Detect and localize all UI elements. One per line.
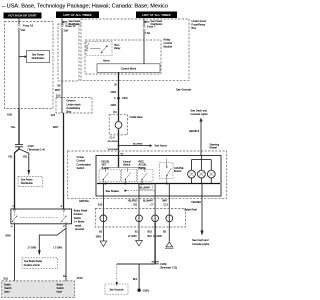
label under-hood fuse/relay box (192, 19, 207, 30)
terminal labels row (98, 203, 169, 206)
svg-text:10A: 10A (21, 28, 26, 32)
svg-text:7.5A: 7.5A (145, 31, 151, 35)
svg-text:input: input (4, 290, 10, 293)
svg-text:C301: C301 (122, 97, 129, 100)
svg-text:YEL: YEL (11, 125, 16, 129)
node see power distribution (dashed ref box) (18, 177, 43, 187)
driver's under-dash fuse/relay box part B (dashed) (58, 24, 79, 81)
svg-text:GRN: GRN (5, 234, 11, 237)
connector box D15 (dashed, driver's under-dash fuse/relay box label) (56, 98, 92, 114)
power label HOT IN ON OR START (4, 13, 42, 19)
decel/set switch (99, 160, 121, 183)
wire through D15 box (61, 98, 63, 114)
svg-text:GRN: GRN (110, 91, 116, 94)
brake pedal position switch (11, 205, 72, 229)
svg-text:Module: Module (164, 44, 173, 48)
svg-text:Combination: Combination (77, 162, 92, 166)
svg-text:Driver's: Driver's (67, 99, 77, 103)
ground (w1) (100, 241, 107, 247)
see dash and console lights (top ref) (191, 108, 209, 121)
svg-text:WHT: WHT (53, 125, 59, 129)
svg-text:BLK/GRN: BLK/GRN (108, 141, 118, 143)
svg-text:See Horns: See Horns (155, 144, 168, 148)
wire illumination feed (RED/BLK) (189, 121, 201, 156)
arrow down to power distribution ref (27, 170, 30, 176)
svg-text:pedal: pedal (75, 224, 82, 227)
ground (w2) (136, 240, 143, 246)
svg-text:YEL: YEL (8, 155, 13, 159)
svg-text:Position Circuit: Position Circuit (24, 264, 40, 267)
branch see horns (118, 143, 168, 147)
fuse F18 (18, 19, 34, 32)
wire control block to cable reel (GRN) (118, 73, 120, 122)
svg-text:E10: E10 (98, 203, 103, 206)
see brakes ref (106, 185, 155, 193)
power label HOT AT ALL TIMES (right) (136, 12, 177, 19)
label brake pedal position switch (74, 210, 88, 232)
connector C415 (15, 144, 45, 152)
wire w3 (154, 184, 156, 223)
svg-text:Control: Control (77, 159, 86, 163)
svg-text:BLK: BLK (147, 235, 152, 238)
svg-text:(Terminals 7-12): (Terminals 7-12) (160, 266, 177, 269)
driver's under-dash fuse/relay box part A (dashed) (5, 22, 54, 109)
svg-text:Cable Reel: Cable Reel (130, 115, 143, 119)
svg-text:WHT: WHT (162, 200, 168, 202)
svg-text:Under-hood: Under-hood (192, 19, 207, 23)
svg-text:Switch: Switch (77, 166, 85, 170)
wire w1 below reel (GRN) (96, 230, 103, 238)
svg-text:A29: A29 (7, 113, 12, 117)
svg-text:E11: E11 (133, 203, 138, 206)
PCM box (2, 275, 83, 297)
svg-text:BLU/WHT: BLU/WHT (143, 200, 154, 202)
cancel switch (122, 160, 137, 183)
svg-text:WHT: WHT (55, 89, 61, 92)
fuse F7 (143, 25, 156, 35)
svg-text:YEL/RED: YEL/RED (191, 202, 201, 204)
wire WHT (55, 81, 62, 98)
wire w1 (switch to cable reel) (102, 184, 104, 241)
svg-text:Distribution: Distribution (21, 182, 34, 185)
svg-text:Box: Box (67, 110, 72, 114)
svg-text:Fuse/Relay: Fuse/Relay (192, 22, 206, 26)
svg-text:BLU/WHT: BLU/WHT (140, 186, 151, 189)
wire w4 below reel (LT GRN) (153, 230, 167, 238)
svg-text:Brake Pedal: Brake Pedal (74, 210, 88, 213)
svg-text:1 = Brake: 1 = Brake (74, 221, 85, 224)
wire ground ref branch (dashed) (115, 264, 118, 286)
svg-text:pressed: pressed (75, 228, 85, 231)
wire w5 illumination return (201, 184, 203, 231)
svg-text:Under-dash: Under-dash (67, 102, 82, 106)
svg-text:Control Block: Control Block (121, 67, 137, 71)
wire X20 to brake switch (WHT) (53, 113, 64, 209)
svg-text:10A: 10A (64, 28, 69, 32)
wire w2 below reel (LT GRN) (128, 230, 139, 238)
wire w3 below reel (BLK) (147, 223, 155, 265)
svg-text:Cruise: Cruise (77, 155, 85, 159)
svg-text:input: input (57, 290, 63, 293)
wire fuse18 down (18, 32, 20, 109)
power label HOT AT ALL TIMES (left) (56, 12, 99, 19)
horn relay (dashed box with relay symbol) (86, 41, 121, 55)
svg-text:LT GRN: LT GRN (28, 247, 37, 250)
internal feed wire (106, 168, 145, 173)
svg-text:Position: Position (74, 213, 84, 216)
svg-text:RED/BLK: RED/BLK (189, 130, 200, 133)
node see brake pedal position circuit (box) (22, 258, 58, 269)
svg-text:G501: G501 (143, 289, 150, 293)
svg-text:C415: C415 (28, 144, 35, 148)
steering wheel (dashed) (68, 151, 227, 198)
svg-text:(Terminals 1-4): (Terminals 1-4) (28, 148, 45, 152)
cruise control combination switch box (96, 156, 221, 197)
wire branch to brake pedal position circuit (LT GRN) (28, 228, 66, 255)
svg-text:LT GRN: LT GRN (54, 247, 63, 250)
control block (97, 64, 160, 73)
svg-text:See Dash and: See Dash and (192, 238, 209, 242)
svg-text:HOT AT ALL TIMES: HOT AT ALL TIMES (142, 13, 170, 17)
svg-text:BLU/RED: BLU/RED (133, 143, 143, 145)
wire w2 (138, 184, 140, 241)
wire w4 (168, 184, 170, 242)
svg-text:Fuse/Relay: Fuse/Relay (67, 106, 81, 110)
cable reel (upper, dashed) (109, 115, 143, 135)
wire fork below C415 (15, 147, 20, 209)
svg-text:Fuse 18: Fuse 18 (23, 24, 34, 28)
cruise (main) button switch (160, 159, 184, 184)
node see grounds (box) (105, 284, 128, 295)
relay control module (dashed) (85, 40, 161, 74)
svg-text:Switch: Switch (123, 164, 131, 167)
arrow to power distribution (19, 55, 27, 58)
svg-text:Switch: Switch (74, 217, 82, 220)
svg-text:LT GRN: LT GRN (128, 235, 137, 238)
svg-text:See Dash and: See Dash and (191, 108, 208, 112)
wire fuse7 to control block (143, 31, 145, 64)
illumination lamps (188, 156, 216, 184)
svg-text:Wheel: Wheel (210, 146, 218, 150)
svg-text:LT GRN: LT GRN (153, 235, 162, 238)
svg-text:Fuse 12: Fuse 12 (66, 24, 77, 28)
svg-text:Box: Box (192, 26, 197, 30)
svg-text:C1 4: C1 4 (110, 137, 116, 140)
arrow w5 to dash and console lights (192, 231, 210, 246)
svg-text:PCM: PCM (77, 276, 83, 280)
wire brake sw 4 to PCM (GRN) (5, 224, 14, 281)
svg-text:C13: C13 (163, 203, 168, 206)
svg-text:B16: B16 (148, 230, 153, 233)
svg-text:See Brake Pedal: See Brake Pedal (24, 260, 42, 263)
svg-text:GRN/YEL: GRN/YEL (79, 201, 90, 203)
svg-text:E13: E13 (4, 277, 9, 280)
node see power distribution (box) (27, 51, 50, 63)
svg-text:Cable Reel: Cable Reel (184, 208, 197, 212)
svg-text:C329: C329 (160, 262, 167, 266)
svg-text:See Grounds: See Grounds (176, 87, 192, 91)
res/accel switch (138, 160, 154, 183)
svg-text:Console Lights: Console Lights (191, 112, 209, 116)
svg-text:Button: Button (139, 167, 147, 170)
see power distribution note (fuse12 top) (62, 18, 82, 26)
svg-text:YEL: YEL (23, 155, 28, 159)
see power distribution note (fuse7 top) (144, 18, 164, 26)
under-hood fuse/relay box (dashed) (81, 19, 189, 81)
svg-text:GRN: GRN (110, 104, 116, 107)
bus bar (97, 183, 220, 185)
connector C329 (152, 262, 178, 270)
svg-text:Console Lights: Console Lights (192, 242, 210, 246)
svg-text:HOT AT ALL TIMES: HOT AT ALL TIMES (63, 13, 91, 17)
wire A29 to C415 (YEL) (11, 109, 20, 145)
svg-text:Relay: Relay (114, 47, 121, 50)
wire labels row (79, 200, 201, 204)
cable reel (lower, dashed) (95, 208, 197, 227)
svg-text:See Grounds: See Grounds (109, 289, 124, 292)
svg-text:Horns: Horns (103, 60, 110, 63)
svg-text:See Brakes: See Brakes (106, 189, 120, 193)
svg-text:D15: D15 (56, 94, 61, 97)
svg-text:X20: X20 (51, 114, 56, 117)
fuse F12 (61, 24, 76, 33)
svg-text:GRN: GRN (96, 235, 102, 238)
ground G501 (137, 289, 149, 293)
svg-text:Fuse 7: Fuse 7 (147, 25, 156, 29)
wire fuse12 down (61, 31, 63, 81)
svg-text:YEL/RED: YEL/RED (127, 200, 137, 202)
svg-text:Button: Button (174, 170, 182, 173)
connector C301 (splice) (114, 97, 128, 100)
svg-text:Button: Button (102, 167, 110, 170)
ground (w4) (165, 242, 174, 248)
wire to G501 (BLK) (133, 264, 139, 289)
wire cable reel to switch (118, 129, 120, 167)
svg-text:– USA: Base, Technology Packag: – USA: Base, Technology Package; Hawaii;… (2, 4, 168, 10)
wire C329 junction bar (117, 263, 155, 265)
svg-text:BLK: BLK (133, 278, 138, 281)
svg-text:HOT IN ON OR START: HOT IN ON OR START (8, 14, 37, 18)
svg-text:Distribution: Distribution (32, 57, 45, 60)
wire brake sw 2 to PCM (LT GRN) (54, 224, 67, 281)
